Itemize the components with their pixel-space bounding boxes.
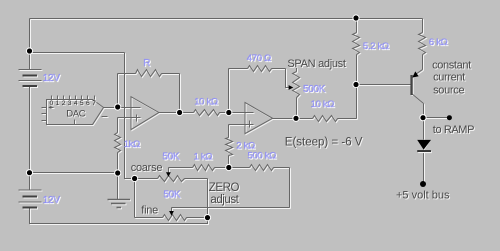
- svg-text:50K: 50K: [163, 190, 181, 201]
- svg-text:7: 7: [92, 100, 96, 107]
- svg-text:SPAN adjust: SPAN adjust: [287, 58, 345, 70]
- svg-text:adjust: adjust: [210, 194, 239, 206]
- svg-text:1kΩ: 1kΩ: [124, 139, 140, 150]
- svg-text:constant: constant: [432, 59, 471, 71]
- svg-text:2: 2: [62, 100, 66, 107]
- svg-text:R: R: [143, 58, 150, 69]
- svg-text:12V: 12V: [43, 195, 61, 206]
- svg-text:3: 3: [68, 100, 72, 107]
- svg-text:500 kΩ: 500 kΩ: [248, 151, 277, 162]
- svg-text:1: 1: [56, 100, 60, 107]
- svg-text:+5 volt bus: +5 volt bus: [396, 190, 450, 202]
- svg-text:fine: fine: [141, 205, 158, 217]
- svg-text:6 kΩ: 6 kΩ: [429, 37, 448, 48]
- svg-text:4: 4: [74, 100, 78, 107]
- svg-text:12V: 12V: [43, 73, 61, 84]
- svg-text:to RAMP: to RAMP: [433, 124, 474, 136]
- svg-text:5.2 kΩ: 5.2 kΩ: [363, 41, 389, 52]
- svg-text:ZERO: ZERO: [209, 182, 240, 194]
- svg-text:50K: 50K: [162, 151, 180, 162]
- svg-text:470 Ω: 470 Ω: [247, 53, 271, 64]
- svg-text:500K: 500K: [303, 84, 326, 95]
- svg-text:source: source: [433, 85, 464, 97]
- svg-text:5: 5: [80, 100, 84, 107]
- svg-text:current: current: [433, 72, 465, 84]
- svg-text:0: 0: [50, 100, 54, 107]
- svg-text:1 kΩ: 1 kΩ: [194, 151, 213, 162]
- svg-text:6: 6: [86, 100, 90, 107]
- svg-text:10 kΩ: 10 kΩ: [194, 97, 218, 108]
- svg-text:coarse: coarse: [131, 162, 163, 174]
- svg-text:10 kΩ: 10 kΩ: [311, 99, 335, 110]
- svg-text:DAC: DAC: [66, 108, 85, 119]
- svg-text:E(steep) = -6 V: E(steep) = -6 V: [285, 136, 363, 148]
